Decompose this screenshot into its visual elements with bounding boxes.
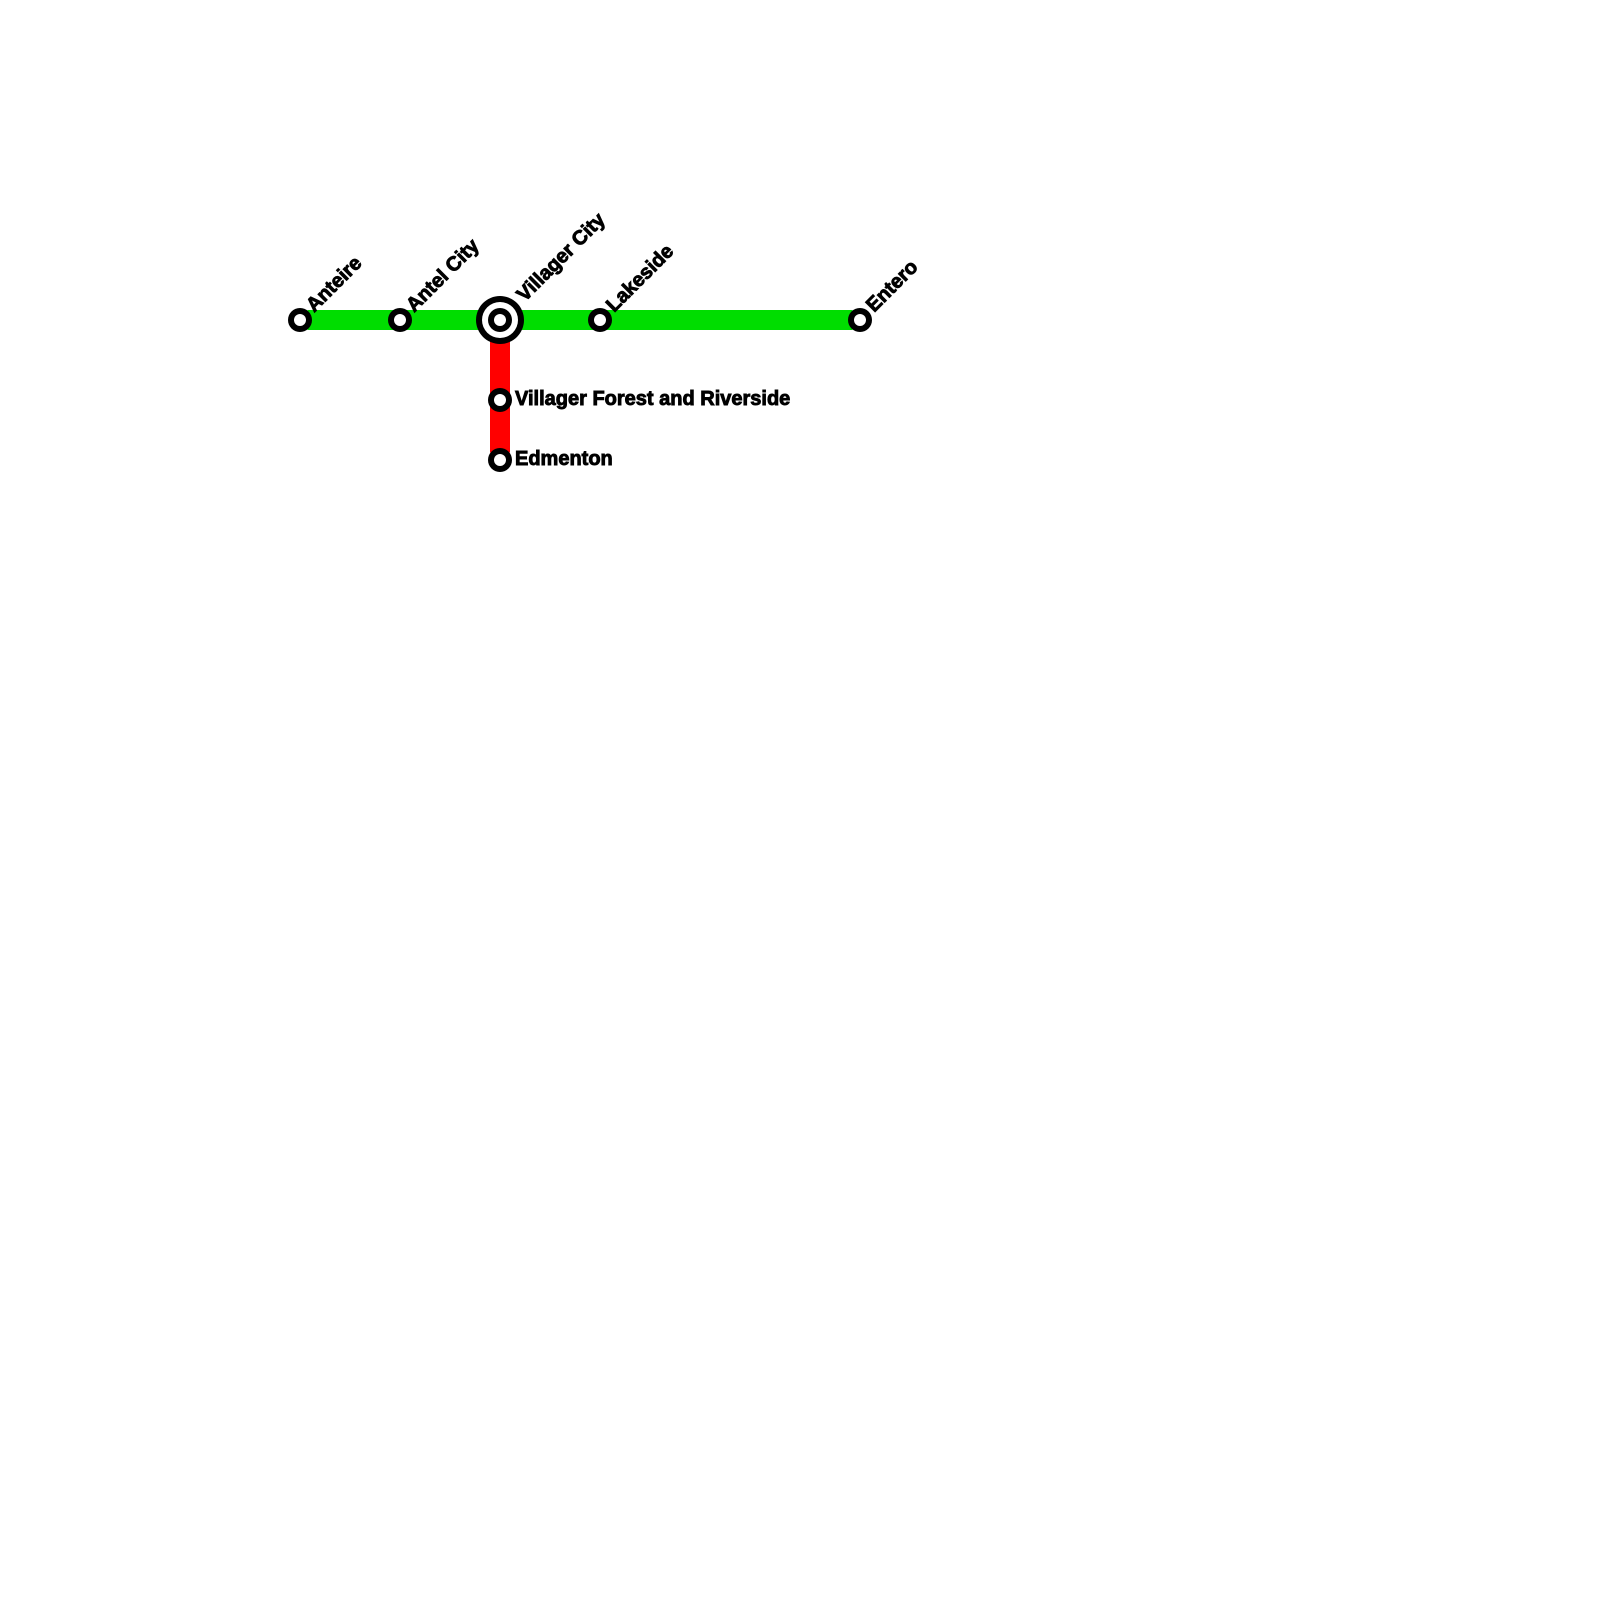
label Lakeside	[602, 240, 678, 316]
station Lakeside marker	[588, 308, 612, 332]
station Antel City marker	[388, 308, 412, 332]
station Entero marker	[848, 308, 872, 332]
green line (Anteire to Entero)	[308, 310, 853, 330]
label Entero	[862, 256, 922, 316]
label Antel City	[402, 234, 484, 316]
red line (Villager City to Edmenton)	[490, 320, 510, 453]
station Edmenton marker	[488, 448, 512, 472]
label Villager City	[513, 208, 611, 306]
svg-text:Edmenton: Edmenton	[515, 448, 613, 470]
label Anteire	[302, 252, 366, 316]
svg-text:Villager Forest and Riverside: Villager Forest and Riverside	[515, 388, 790, 410]
interchange Villager City marker	[476, 296, 524, 344]
station Anteire marker	[288, 308, 312, 332]
station Villager Forest and Riverside marker	[488, 388, 512, 412]
